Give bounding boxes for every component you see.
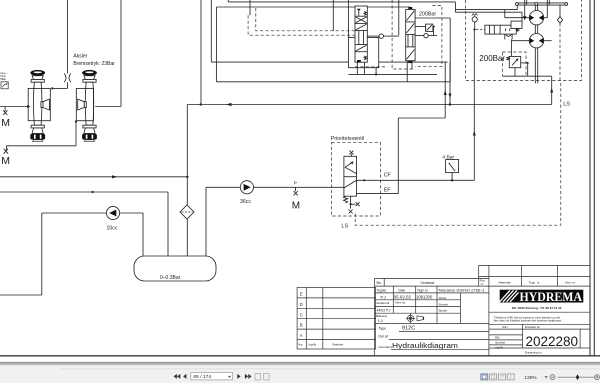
- svg-text:Godkendt: Godkendt: [376, 301, 389, 305]
- svg-text:Bremsetryk: 23Bar: Bremsetryk: 23Bar: [73, 61, 115, 67]
- svg-text:Del af: Del af: [378, 334, 387, 338]
- svg-text:M: M: [1, 155, 10, 167]
- svg-text:A: A: [300, 333, 303, 338]
- svg-text:05.02.02: 05.02.02: [394, 294, 412, 299]
- svg-text:36cc: 36cc: [240, 199, 251, 205]
- svg-text:2022280: 2022280: [526, 334, 579, 349]
- svg-text:Rettelser: Rettelser: [333, 343, 344, 347]
- svg-text:LS: LS: [563, 101, 570, 107]
- svg-text:Nrs.: Nrs.: [298, 343, 303, 347]
- svg-text:130%: 130%: [525, 375, 537, 380]
- svg-text:Genstand: Genstand: [421, 281, 435, 285]
- svg-text:Type: Type: [378, 327, 386, 331]
- svg-text:Stk: Stk: [376, 281, 381, 285]
- svg-text:HYDREMA: HYDREMA: [520, 290, 583, 304]
- svg-text:200Bar: 200Bar: [479, 54, 505, 63]
- svg-text:Tolerance DS/ISO 2768–1: Tolerance DS/ISO 2768–1: [438, 288, 485, 293]
- svg-text:Afkort.: Afkort.: [439, 296, 448, 300]
- svg-text:1091200: 1091200: [416, 294, 433, 299]
- svg-text:Aksler: Aksler: [73, 54, 87, 60]
- svg-text:E: E: [300, 292, 303, 297]
- svg-text:44/02 P.J: 44/02 P.J: [377, 308, 391, 312]
- svg-text:Vers. nr.: Vers. nr.: [565, 281, 576, 285]
- svg-text:Vers no.: Vers no.: [395, 301, 406, 305]
- svg-text:Smede: Smede: [439, 302, 449, 306]
- svg-text:ikke uden vor tilladelse kopie: ikke uden vor tilladelse kopieres eller …: [494, 319, 562, 323]
- svg-text:Tegnet: Tegnet: [377, 288, 387, 292]
- svg-text:200Bar: 200Bar: [419, 12, 436, 18]
- svg-text:D: D: [300, 302, 303, 307]
- svg-text:nr.: nr.: [481, 282, 485, 286]
- svg-text:5Bar: 5Bar: [0, 77, 6, 81]
- svg-text:P.J: P.J: [381, 294, 386, 299]
- svg-text:B: B: [300, 323, 303, 328]
- svg-text:Prioritetsventil: Prioritetsventil: [331, 136, 364, 142]
- svg-text:Erstatning for: Erstatning for: [525, 350, 542, 354]
- svg-text:Tegn.nr.: Tegn.nr.: [417, 288, 429, 292]
- svg-text:CF: CF: [384, 173, 391, 179]
- svg-text:10cc: 10cc: [107, 226, 118, 232]
- svg-text:Genstand: Genstand: [378, 345, 392, 349]
- svg-text:Materiale: Materiale: [499, 281, 512, 285]
- svg-text:Dato: Dato: [399, 288, 406, 292]
- svg-text:©Hydrema 1999. Denne tegning e: ©Hydrema 1999. Denne tegning er vores ej…: [494, 315, 560, 319]
- svg-text:1:1: 1:1: [378, 318, 384, 323]
- svg-text:P: P: [294, 181, 297, 186]
- svg-text:M: M: [292, 200, 300, 211]
- svg-text:Ugs/år: Ugs/år: [495, 346, 503, 350]
- svg-text:Tegn. nr.: Tegn. nr.: [529, 281, 541, 285]
- svg-text:C: C: [300, 312, 303, 317]
- svg-text:Hydraulikdiagram: Hydraulikdiagram: [392, 343, 458, 350]
- svg-text:M: M: [1, 117, 10, 129]
- svg-text:Ajourført: Ajourført: [495, 341, 506, 345]
- svg-text:EF: EF: [384, 187, 391, 193]
- svg-text:65 / 174: 65 / 174: [193, 374, 211, 380]
- svg-text:Spidst.: Spidst.: [439, 308, 448, 312]
- svg-text:Erstattet af: Erstattet af: [525, 325, 540, 329]
- svg-text:Stk./: Stk./: [502, 325, 508, 329]
- svg-text:912C: 912C: [402, 326, 415, 332]
- svg-text:Ugs/år: Ugs/år: [308, 343, 316, 347]
- svg-text:Mål: Mål: [495, 336, 500, 340]
- svg-text:DK–9530 Støvring– Tlf. 98 37 1: DK–9530 Støvring– Tlf. 98 37 13 33: [512, 306, 562, 310]
- svg-text:0–0.3Bar: 0–0.3Bar: [160, 275, 181, 281]
- svg-text:LS: LS: [341, 224, 348, 230]
